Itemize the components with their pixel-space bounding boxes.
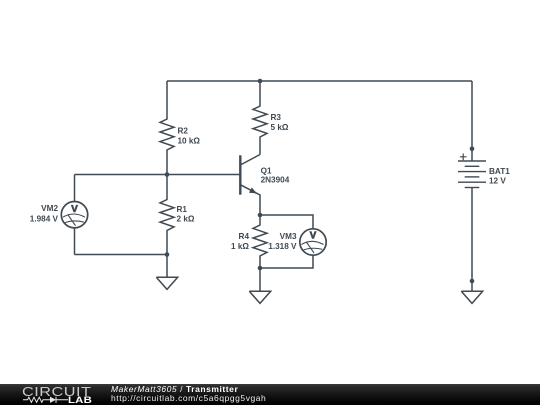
svg-text:12 V: 12 V bbox=[489, 177, 506, 186]
svg-text:1.318 V: 1.318 V bbox=[268, 242, 297, 251]
wire emitter to VM3 bbox=[260, 215, 313, 229]
svg-text:BAT1: BAT1 bbox=[489, 167, 510, 176]
node bottom left junction bbox=[165, 252, 170, 257]
svg-text:R1: R1 bbox=[177, 205, 188, 214]
node base junction bbox=[165, 172, 170, 177]
wire VM3 bottom bbox=[260, 255, 313, 268]
footer url bbox=[111, 394, 266, 403]
transistor Q1 bbox=[240, 155, 260, 216]
svg-text:1.984 V: 1.984 V bbox=[30, 215, 59, 224]
svg-text:5 kΩ: 5 kΩ bbox=[271, 123, 289, 132]
wire top rail bbox=[167, 80, 472, 82]
wire base rail bbox=[75, 174, 241, 176]
node battery top terminal bbox=[470, 147, 475, 152]
resistor R1 bbox=[160, 175, 174, 255]
voltmeter VM2 bbox=[61, 202, 87, 228]
battery BAT1 bbox=[458, 154, 486, 188]
resistor R3 bbox=[253, 81, 267, 155]
voltmeter VM3 bbox=[300, 229, 326, 255]
node R4 bottom junction bbox=[258, 266, 263, 271]
wire battery top lead bbox=[471, 81, 473, 161]
svg-text:10 kΩ: 10 kΩ bbox=[178, 136, 201, 145]
CircuitLab logo symbol bbox=[23, 396, 69, 404]
resistor R2 bbox=[160, 81, 174, 175]
svg-text:VM3: VM3 bbox=[280, 232, 297, 241]
resistor R4 bbox=[253, 215, 267, 268]
svg-text:1 kΩ: 1 kΩ bbox=[231, 242, 249, 251]
svg-text:VM2: VM2 bbox=[41, 204, 58, 213]
svg-text:2 kΩ: 2 kΩ bbox=[177, 215, 195, 224]
node battery bottom terminal bbox=[470, 279, 475, 284]
svg-text:R4: R4 bbox=[239, 232, 250, 241]
wire bottom left bbox=[75, 254, 168, 256]
footer bar bbox=[0, 384, 540, 405]
ground below R1 bbox=[156, 255, 177, 290]
svg-text:2N3904: 2N3904 bbox=[261, 176, 290, 185]
svg-text:Q1: Q1 bbox=[261, 166, 272, 175]
node top junction bbox=[258, 79, 263, 84]
wire battery bottom lead bbox=[471, 188, 473, 292]
wire VM2 bottom lead bbox=[74, 228, 76, 255]
CircuitLab logo LAB bbox=[68, 396, 92, 405]
ground below BAT1 bbox=[461, 291, 482, 303]
node emitter junction bbox=[258, 213, 263, 218]
svg-text:R3: R3 bbox=[271, 113, 282, 122]
label VM3 V glyph bbox=[309, 231, 316, 238]
svg-text:R2: R2 bbox=[178, 127, 189, 136]
label VM2 V glyph bbox=[71, 205, 78, 212]
CircuitLab logo CIRCUIT bbox=[22, 387, 91, 397]
ground below R4 bbox=[249, 268, 270, 303]
wire VM2 top lead bbox=[74, 175, 76, 202]
footer author / title bbox=[111, 385, 238, 394]
